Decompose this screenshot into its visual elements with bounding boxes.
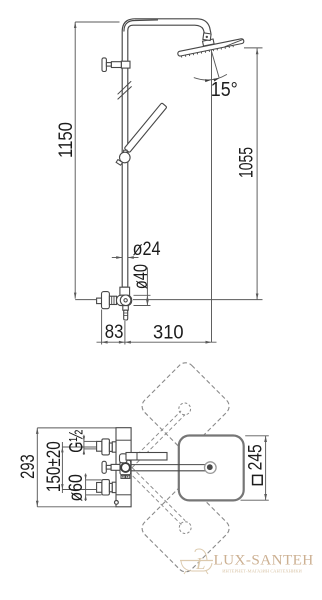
pipe break marks — [118, 81, 132, 94]
dimension ø24 — [112, 257, 122, 259]
hand shower wand — [124, 103, 167, 153]
svg-text:245: 245 — [246, 444, 267, 470]
overhead shower head — [177, 38, 244, 58]
dimension 245 line — [265, 436, 267, 500]
svg-text:G½: G½ — [67, 430, 88, 453]
dimension G1/2 — [83, 435, 85, 455]
hand shower slider — [116, 160, 123, 166]
shower riser pipe and overhead arm — [122, 19, 211, 287]
svg-text:293: 293 — [18, 454, 39, 479]
dimension ø60 line — [85, 474, 87, 502]
valve centre extension line — [75, 299, 96, 301]
watermark logo bathtub — [180, 549, 213, 574]
svg-text:15°: 15° — [211, 79, 238, 101]
15 degree arc — [194, 74, 227, 80]
dashed arm upper — [128, 411, 181, 464]
riser lower connector — [122, 286, 128, 288]
dimension 150±20 line — [61, 442, 63, 493]
hose outlet nipple — [123, 306, 129, 311]
diverter T-handle — [102, 461, 106, 473]
dimension ø40 — [146, 268, 148, 306]
svg-text:L: L — [195, 554, 205, 573]
shower arm plan — [131, 464, 206, 466]
svg-text:LUX-SANTEH: LUX-SANTEH — [214, 551, 314, 568]
valve pivot circle plan — [121, 463, 130, 472]
svg-text:ø60: ø60 — [66, 474, 87, 501]
svg-text:1055: 1055 — [237, 147, 258, 178]
dashed arm lower — [128, 471, 181, 524]
valve body plan — [120, 460, 131, 475]
svg-text:83: 83 — [105, 322, 124, 343]
svg-text:ИНТЕРНЕТ-МАГАЗИН САНТЕХНИКИ: ИНТЕРНЕТ-МАГАЗИН САНТЕХНИКИ — [222, 568, 302, 573]
dimension 1055 line — [256, 48, 258, 299]
wall plate plan — [116, 428, 131, 507]
svg-text:310: 310 — [153, 322, 184, 343]
bottom inlet fitting — [97, 483, 102, 493]
wall bracket — [102, 58, 106, 72]
head vertical reference line — [211, 49, 213, 342]
dimension 83/310 line — [97, 341, 217, 343]
head ball joint — [203, 39, 215, 46]
dashed swivel square lower — [139, 481, 233, 575]
svg-text:ø40: ø40 — [131, 264, 152, 289]
lever handle plan — [120, 454, 128, 463]
mixer valve side view — [97, 298, 102, 304]
plate screw — [115, 501, 119, 505]
15 degree tilt line — [212, 52, 219, 77]
dashed swivel square upper — [139, 359, 233, 453]
square symbol — [253, 475, 263, 484]
dimension 293 line — [36, 428, 38, 507]
shower head plan square — [179, 436, 244, 501]
svg-text:1150: 1150 — [56, 122, 77, 158]
dimension 1150 line — [74, 22, 76, 299]
svg-text:ø24: ø24 — [133, 239, 161, 260]
svg-text:150±20: 150±20 — [44, 441, 65, 492]
top inlet fitting — [97, 441, 102, 451]
